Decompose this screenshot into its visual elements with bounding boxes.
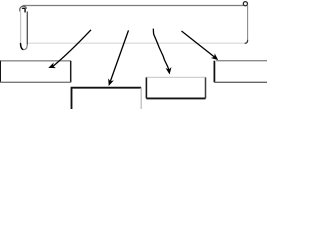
box 1 (top-left rectangle) bbox=[0, 61, 71, 83]
box 4 (right rectangle, clipped at right) bbox=[214, 61, 268, 83]
scroll bottom edge bbox=[28, 42, 246, 44]
arrow 2 (scroll to box 2) bbox=[108, 30, 128, 86]
scroll right curl bbox=[243, 2, 247, 6]
scroll right edge bbox=[247, 5, 249, 41]
scroll left roll inner vertical line bbox=[26, 12, 28, 44]
scroll banner (horizontal-scroll shape) bbox=[20, 2, 248, 50]
scroll top edge bbox=[23, 5, 243, 7]
scroll left roll bottom curve bbox=[21, 44, 28, 50]
box 3 (bottom-right-of-center rectangle) bbox=[146, 77, 205, 98]
arrow 3 (scroll to box 3) bbox=[153, 29, 171, 75]
scroll left roll outer curl bbox=[20, 6, 27, 11]
box 2 (bottom-middle rectangle, clipped at bottom) bbox=[72, 88, 142, 110]
scroll bottom-right fold bbox=[245, 40, 247, 43]
scroll left roll outer vertical line bbox=[20, 11, 22, 45]
scroll left roll bottom dark fold bbox=[21, 44, 23, 50]
scroll left roll inner curl bbox=[23, 8, 26, 12]
arrow 1 (scroll to box 1) bbox=[48, 30, 91, 68]
arrow 4 (scroll to box 4) bbox=[182, 31, 219, 60]
